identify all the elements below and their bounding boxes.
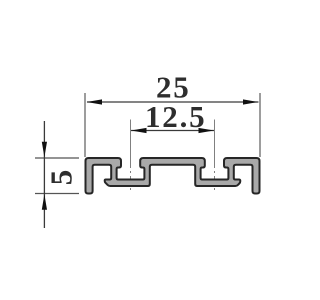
wire extension line 25 left [84, 93, 86, 157]
node arrow 25 right [243, 99, 259, 104]
wire extension line 5 top [35, 157, 79, 159]
node arrow 25 left [87, 99, 103, 104]
wire extension line 5 bottom [35, 193, 79, 195]
wire dimension line 12.5 [131, 130, 214, 132]
node arrow 12.5 right [199, 128, 215, 133]
wire dimension line 25 [87, 101, 259, 103]
wire dimension line 5 [43, 121, 45, 228]
node arrow 5 top [42, 142, 47, 158]
node arrow 5 bottom [42, 194, 47, 210]
wire extension line 25 right [259, 93, 261, 157]
node arrow 12.5 left [131, 128, 147, 133]
svg-text:12.5: 12.5 [145, 99, 206, 134]
node slot2 centerline [214, 120, 216, 192]
node slot1 centerline [130, 120, 132, 192]
node profile cross-section [86, 158, 260, 194]
svg-text:5: 5 [44, 170, 79, 186]
